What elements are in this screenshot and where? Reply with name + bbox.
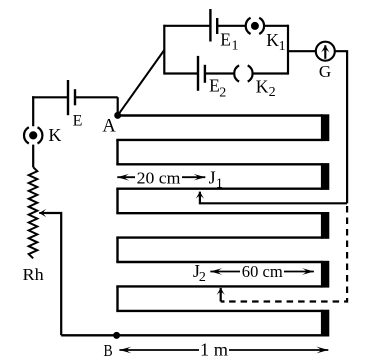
svg-text:1: 1: [232, 39, 239, 54]
svg-text:E: E: [73, 113, 83, 130]
svg-text:E: E: [220, 29, 231, 49]
svg-text:K: K: [48, 125, 61, 145]
svg-text:2: 2: [269, 85, 276, 100]
svg-text:E: E: [209, 75, 220, 95]
svg-text:Rh: Rh: [23, 265, 45, 284]
svg-text:K: K: [256, 76, 269, 96]
svg-text:2: 2: [219, 85, 226, 100]
svg-text:1: 1: [216, 176, 223, 191]
svg-text:J: J: [209, 168, 216, 188]
svg-text:60 cm: 60 cm: [242, 262, 283, 281]
svg-text:G: G: [319, 62, 331, 81]
svg-text:2: 2: [199, 270, 206, 285]
svg-text:1 m: 1 m: [200, 340, 228, 360]
svg-text:A: A: [102, 117, 116, 137]
svg-text:B: B: [104, 341, 113, 360]
svg-text:K: K: [266, 30, 279, 50]
svg-text:1: 1: [279, 39, 286, 54]
svg-text:20 cm: 20 cm: [137, 169, 181, 188]
